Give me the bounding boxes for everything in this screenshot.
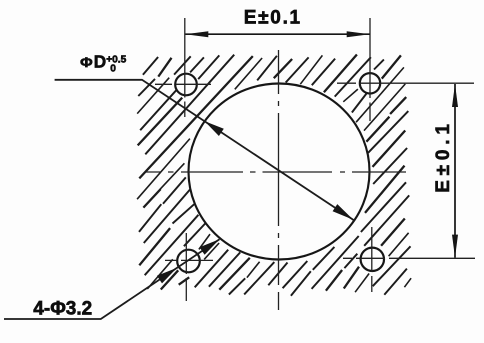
top dimension line E±0.1: [185, 33, 369, 35]
top-right mounting hole (Phi 3.2): [360, 73, 380, 93]
vertical centerline of big hole: [278, 50, 280, 310]
lower arrow of diameter line: [333, 204, 354, 220]
arrow at big circle edge on leader: [200, 239, 220, 255]
bottom-left mounting hole (Phi 3.2): [177, 250, 200, 273]
big central hole (diameter D): [189, 84, 370, 260]
svg-text:E±0.1: E±0.1: [244, 8, 302, 29]
hatching (section lines of mounting plate): [137, 55, 411, 292]
crosshair of bottom-right hole + extension line: [343, 227, 475, 292]
arrow at bottom-left hole: [157, 268, 177, 284]
right dimension line E±0.1: [454, 84, 456, 258]
crosshair of top-right hole + extension lines: [337, 18, 474, 121]
bottom-right mounting hole (Phi 3.2): [361, 248, 384, 271]
svg-text:E±0.1: E±0.1: [433, 119, 454, 193]
crosshair of top-left hole: [155, 18, 211, 117]
top-left mounting hole (Phi 3.2): [175, 74, 197, 96]
svg-text:Φ: Φ: [80, 54, 93, 70]
leader line for 4-Phi3.2 label: [4, 239, 220, 319]
crosshair of bottom-left hole: [165, 233, 213, 301]
svg-text:0: 0: [110, 64, 116, 75]
upper arrow of diameter line: [205, 121, 224, 136]
svg-text:4-Φ3.2: 4-Φ3.2: [33, 298, 92, 319]
horizontal centerline of big hole: [146, 171, 406, 173]
diameter line of big hole with leader to PhiD label: [55, 80, 355, 221]
bottom arrow of right dimension: [452, 235, 458, 258]
svg-text:D: D: [94, 52, 106, 72]
left arrow of top dimension: [185, 31, 208, 37]
top arrow of right dimension: [452, 84, 458, 107]
right arrow of top dimension: [347, 31, 370, 37]
